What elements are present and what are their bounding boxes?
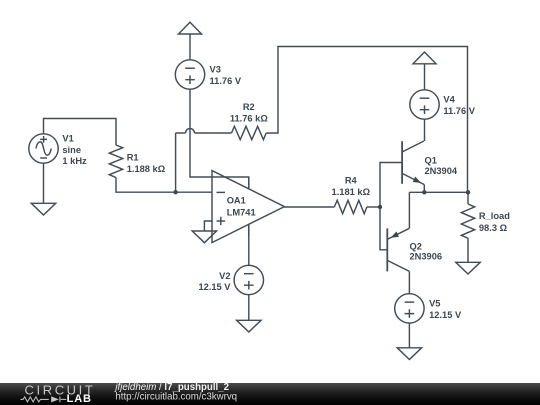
svg-text:11.76 V: 11.76 V (210, 76, 242, 86)
wire R1 bottom to op-amp inverting input (116, 178, 212, 193)
svg-text:V4: V4 (443, 95, 455, 105)
svg-text:http://circuitlab.com/c3kwrvq: http://circuitlab.com/c3kwrvq (115, 392, 237, 403)
resistor R1 (109, 145, 122, 178)
node B junction dot (378, 205, 382, 209)
logo resistor-diode glyph (21, 397, 67, 403)
svg-text:V1: V1 (62, 134, 73, 144)
svg-text:1.188 kΩ: 1.188 kΩ (127, 164, 166, 174)
transistor Q2 2N3906 (386, 228, 388, 271)
voltage source V5 (395, 294, 424, 323)
svg-text:V3: V3 (210, 65, 221, 75)
wire op-amp + input stub to ground (204, 221, 212, 231)
footer bar (0, 383, 540, 405)
ground under V5 (397, 348, 421, 360)
wire node B up to Q1 base (380, 163, 402, 208)
power arrow above V3 (179, 22, 202, 34)
wire V5 bottom to ground (408, 323, 410, 348)
wire op-amp V- pin to V2 top (248, 224, 250, 265)
wire Q2 collector to V5 top (408, 271, 410, 293)
wire V3 top to power arrow (189, 34, 191, 60)
svg-text:11.76 V: 11.76 V (443, 106, 475, 116)
voltage source V3 (175, 60, 204, 89)
svg-text:Q1: Q1 (425, 156, 437, 166)
op-amp U1 triangle with input marks and supply stubs (212, 171, 284, 243)
node A junction dot (173, 190, 177, 194)
wire node B down to Q2 base (380, 207, 387, 250)
wire R_load bottom to ground (467, 238, 469, 262)
ground under V1 (31, 203, 55, 215)
svg-text:V5: V5 (429, 298, 440, 308)
voltage source V2 (234, 265, 263, 294)
wire down to Q2 emitter (408, 192, 410, 228)
svg-text:12.15 V: 12.15 V (198, 282, 231, 292)
svg-text:12.15 V: 12.15 V (429, 310, 462, 320)
svg-text:sine: sine (62, 145, 81, 155)
voltage source V4 (410, 90, 439, 119)
resistor R2 (232, 126, 267, 139)
svg-text:2N3906: 2N3906 (410, 252, 443, 262)
svg-text:LM741: LM741 (227, 208, 256, 218)
svg-text:R4: R4 (345, 176, 358, 186)
voltage source V1 sine (29, 134, 58, 163)
svg-text:R_load: R_load (479, 211, 510, 221)
wire feedback horizontal with hop over V3 supply (176, 129, 232, 134)
svg-text:OA1: OA1 (227, 195, 246, 205)
wire R2 right via top rail to output node (266, 47, 467, 193)
svg-text:1.181 kΩ: 1.181 kΩ (332, 187, 371, 197)
svg-text:2N3904: 2N3904 (425, 166, 458, 176)
svg-text:11.76 kΩ: 11.76 kΩ (230, 114, 269, 124)
svg-text:R2: R2 (243, 102, 255, 112)
ground under V2 (237, 320, 261, 332)
resistor R_load (461, 204, 474, 238)
wire op-amp output to R4 (284, 206, 334, 208)
svg-text:Q2: Q2 (410, 241, 422, 251)
wire R4 right to node B (367, 206, 380, 208)
wire V4 top to power arrow (424, 64, 426, 90)
junction dot output / R_load (466, 190, 470, 194)
junction dot Q1 emitter (422, 190, 426, 194)
ground under op-amp non-inverting input (192, 231, 216, 243)
wire V2 bottom to ground (248, 295, 250, 321)
wire V4 bottom to Q1 collector (424, 119, 426, 141)
svg-text:LAB: LAB (67, 393, 92, 405)
transistor Q1 2N3904 (401, 141, 403, 184)
svg-text:V2: V2 (219, 271, 230, 281)
wire V1 bottom to ground (43, 163, 45, 203)
wire V1 top to R1 top (44, 119, 117, 146)
wire V3 bottom to op-amp V+ pin (190, 89, 249, 189)
wire feedback vertical from node A up (175, 133, 177, 192)
svg-text:1 kHz: 1 kHz (62, 156, 87, 166)
wire Q1 emitter to output node (423, 185, 425, 193)
wire output node horizontal emitters to R_load (409, 191, 468, 193)
svg-text:R1: R1 (127, 152, 139, 162)
ground under R_load (456, 262, 480, 274)
svg-text:98.3 Ω: 98.3 Ω (479, 223, 508, 233)
wire output node to R_load top (467, 192, 469, 204)
resistor R4 (334, 200, 367, 213)
power arrow above V4 (413, 52, 436, 64)
